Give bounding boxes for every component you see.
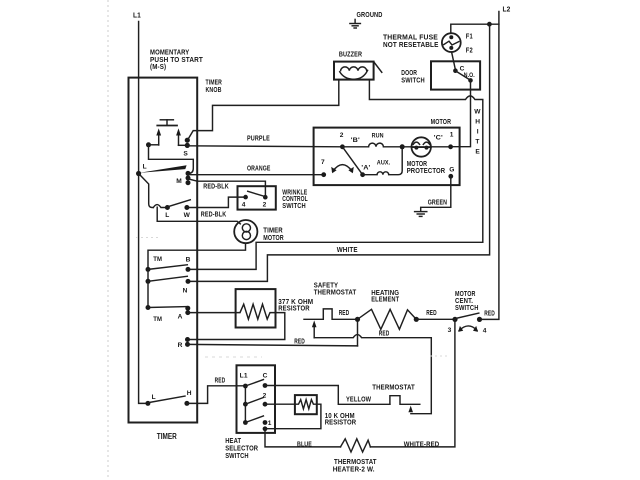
svg-text:SWITCH: SWITCH — [225, 451, 249, 460]
svg-text:3: 3 — [448, 327, 452, 334]
contact B — [186, 267, 191, 272]
wire 10K resistor back to pin 1 — [265, 404, 321, 429]
contact M — [186, 171, 191, 176]
svg-text:RED-BLK: RED-BLK — [201, 209, 227, 218]
svg-text:TM: TM — [153, 316, 162, 323]
svg-text:1: 1 — [450, 132, 454, 139]
wire L2 vertical down to motor cent. switch pin 4 — [481, 12, 499, 320]
wire PURPLE: S to motor pin 2 — [187, 146, 342, 147]
node heating element right junction — [414, 317, 419, 322]
buzzer — [334, 49, 382, 79]
thermal fuse F1/F2 — [383, 32, 473, 55]
wire junction vertical to R red wire — [357, 319, 359, 346]
resistor 377K — [236, 289, 314, 327]
svg-text:PROTECTOR: PROTECTOR — [407, 166, 446, 175]
contact W — [184, 205, 189, 210]
svg-text:(M-S): (M-S) — [150, 62, 167, 71]
arrow arc 7-A — [333, 165, 353, 172]
svg-text:2: 2 — [340, 132, 344, 139]
net WHITE (vertical label) — [474, 109, 481, 156]
wire buzzer right terminal to timer B (white) with hop over door-switch wire — [188, 80, 483, 270]
motor protector U — [407, 137, 446, 175]
svg-text:GREEN: GREEN — [428, 197, 447, 206]
svg-text:2: 2 — [263, 202, 267, 209]
svg-text:RESISTOR: RESISTOR — [278, 303, 310, 312]
wire left contact to arrow — [149, 144, 159, 146]
wire L2 junction down to timer N — [188, 24, 490, 281]
svg-text:AUX.: AUX. — [377, 160, 391, 167]
wrinkle control switch — [238, 186, 309, 210]
svg-text:PURPLE: PURPLE — [247, 133, 270, 142]
wire L down to lower L contact — [139, 174, 168, 208]
svg-text:S: S — [183, 151, 188, 158]
svg-text:R: R — [178, 342, 183, 349]
switch arm TM to A — [148, 306, 187, 309]
svg-text:W: W — [184, 212, 191, 219]
svg-text:RED-BLK: RED-BLK — [203, 181, 229, 190]
wire timer motor to TM contact — [148, 243, 246, 269]
svg-text:RED: RED — [484, 308, 495, 317]
svg-text:H: H — [187, 390, 192, 397]
motor box — [314, 117, 460, 185]
svg-text:RED: RED — [294, 336, 305, 345]
svg-text:B: B — [186, 257, 191, 264]
contact L (lower) — [165, 205, 170, 210]
svg-text:F2: F2 — [466, 46, 473, 55]
svg-text:N.O.: N.O. — [464, 72, 475, 79]
switch arm TM to B — [148, 265, 187, 270]
thermostat — [372, 383, 420, 413]
wire 377K resistor to R — [188, 313, 285, 340]
svg-text:RED: RED — [339, 308, 350, 317]
wire sensor capillary: safety thermostat to thermostat (hop over red) — [314, 335, 431, 414]
motor pin G — [448, 174, 453, 179]
wire RED-BLK: M to wrinkle control switch pin 2 — [188, 179, 265, 196]
svg-text:H: H — [475, 119, 480, 126]
wire run line to pin 1 — [402, 146, 450, 148]
wire branch to timer motor — [157, 207, 240, 224]
svg-text:L: L — [143, 163, 147, 170]
svg-text:NOT RESETABLE: NOT RESETABLE — [383, 40, 439, 49]
motor pin A — [360, 172, 365, 177]
svg-text:F1: F1 — [466, 32, 473, 41]
timer switch arm L to M — [139, 165, 187, 173]
push button right arrow — [178, 135, 180, 146]
svg-text:WHITE-RED: WHITE-RED — [404, 440, 440, 449]
wire ORANGE: M to motor pin 7 — [188, 174, 324, 176]
svg-text:A: A — [178, 313, 183, 320]
wire heating element to motor cent switch 3 — [416, 318, 455, 320]
svg-text:N: N — [183, 287, 188, 294]
svg-text:4: 4 — [242, 202, 246, 209]
svg-text:RED: RED — [215, 376, 226, 385]
wire BLUE: pin 1 down to thermostat heater — [265, 429, 341, 447]
switch arm L to W — [168, 200, 190, 207]
svg-text:L: L — [152, 394, 156, 401]
svg-text:M: M — [176, 178, 182, 185]
svg-text:1: 1 — [268, 420, 272, 427]
resistor 10K — [295, 395, 357, 426]
wire A to 377K resistor — [188, 312, 236, 314]
wire L2 to thermal fuse — [451, 24, 499, 33]
wire WHITE-RED: heater to motor cent switch 3 — [370, 319, 455, 447]
safety thermostat — [304, 280, 358, 337]
motor aux winding — [363, 147, 403, 175]
motor run winding — [342, 143, 402, 147]
motor pin 7 — [321, 172, 326, 177]
svg-text:MOTOR: MOTOR — [431, 117, 452, 126]
svg-text:L1: L1 — [240, 373, 248, 380]
wire S to buzzer left terminal — [188, 80, 339, 140]
svg-text:2: 2 — [263, 392, 267, 399]
ground (motor green) — [415, 197, 448, 216]
svg-text:G: G — [449, 166, 454, 173]
timer motor — [234, 220, 284, 243]
wire 2 to 10K resistor — [265, 403, 295, 405]
ground (top chassis ground) — [350, 10, 383, 28]
svg-text:4: 4 — [483, 327, 487, 334]
node aux/run junction — [400, 144, 405, 149]
svg-text:E: E — [475, 149, 480, 156]
wire right arrow to S — [179, 144, 188, 146]
svg-text:HEATER-2 W.: HEATER-2 W. — [333, 464, 375, 473]
junction L2 / thermal fuse feed — [487, 22, 492, 27]
wire W to wrinkle control switch pin 4 (RED-BLK) — [187, 197, 246, 207]
heat selector switch — [225, 365, 275, 460]
svg-text:RED: RED — [426, 308, 437, 317]
contact N — [186, 279, 191, 284]
svg-text:SWITCH: SWITCH — [282, 201, 306, 210]
contact dot left of push button — [146, 142, 151, 147]
contact A — [185, 306, 190, 311]
svg-text:T: T — [475, 139, 479, 146]
wire thermal fuse to door switch C — [452, 52, 456, 69]
contact TM bus — [146, 267, 151, 272]
svg-text:L1: L1 — [133, 11, 141, 20]
switch arm TM to N — [148, 276, 187, 281]
heating element — [339, 288, 437, 330]
motor centrifugal switch — [448, 289, 495, 335]
svg-text:BLUE: BLUE — [297, 440, 312, 449]
contact S — [185, 138, 190, 143]
svg-text:KNOB: KNOB — [206, 85, 222, 94]
svg-text:YELLOW: YELLOW — [346, 395, 371, 404]
svg-text:'A': 'A' — [361, 165, 370, 172]
push button left arrow — [158, 135, 160, 145]
svg-text:TM: TM — [153, 256, 162, 263]
scan artifact column — [107, 0, 109, 480]
thermostat heater 2W — [333, 439, 377, 474]
faint scan smudges — [205, 356, 262, 358]
push-to-start button — [156, 120, 178, 126]
motor pin 2 — [340, 144, 345, 149]
timer box — [129, 78, 198, 423]
wire RED: R to heating element junction — [188, 344, 358, 346]
svg-text:L: L — [165, 212, 169, 219]
wire door switch N.O. to motor pin 1 — [451, 80, 471, 146]
svg-text:GROUND: GROUND — [357, 10, 383, 19]
svg-text:'B': 'B' — [351, 137, 360, 144]
svg-text:L2: L2 — [503, 5, 511, 14]
node heating element left junction — [355, 317, 360, 322]
svg-text:C: C — [263, 373, 268, 380]
svg-text:ELEMENT: ELEMENT — [371, 294, 399, 303]
svg-text:RUN: RUN — [372, 132, 384, 139]
svg-text:BUZZER: BUZZER — [339, 49, 363, 58]
svg-text:WHITE: WHITE — [337, 245, 358, 254]
svg-text:ORANGE: ORANGE — [247, 163, 271, 172]
svg-text:RESISTOR: RESISTOR — [325, 417, 357, 426]
svg-text:I: I — [477, 129, 479, 136]
contact H / L bottom timer switch — [145, 401, 150, 406]
svg-text:MOTOR: MOTOR — [263, 233, 284, 242]
door switch — [401, 61, 480, 89]
motor switch arm 2 to A — [342, 147, 362, 175]
node L junction on L1 bus — [136, 171, 141, 176]
wire YELLOW: C to thermostat — [265, 386, 390, 405]
motor pin 1 — [448, 144, 453, 149]
wire RED: H to heat selector L1 — [187, 386, 246, 404]
svg-text:'C': 'C' — [434, 135, 443, 142]
svg-text:THERMOSTAT: THERMOSTAT — [372, 383, 415, 392]
contact R — [185, 337, 190, 342]
svg-text:SWITCH: SWITCH — [455, 303, 479, 312]
wire L1 vertical bus into timer — [139, 22, 148, 404]
wire left contact down to M — [149, 145, 194, 174]
wire G to chassis ground — [421, 176, 451, 211]
svg-text:W: W — [474, 109, 481, 116]
svg-text:THERMOSTAT: THERMOSTAT — [314, 288, 357, 297]
svg-text:TIMER: TIMER — [157, 432, 177, 441]
svg-text:7: 7 — [321, 159, 325, 166]
svg-text:SWITCH: SWITCH — [401, 76, 425, 85]
